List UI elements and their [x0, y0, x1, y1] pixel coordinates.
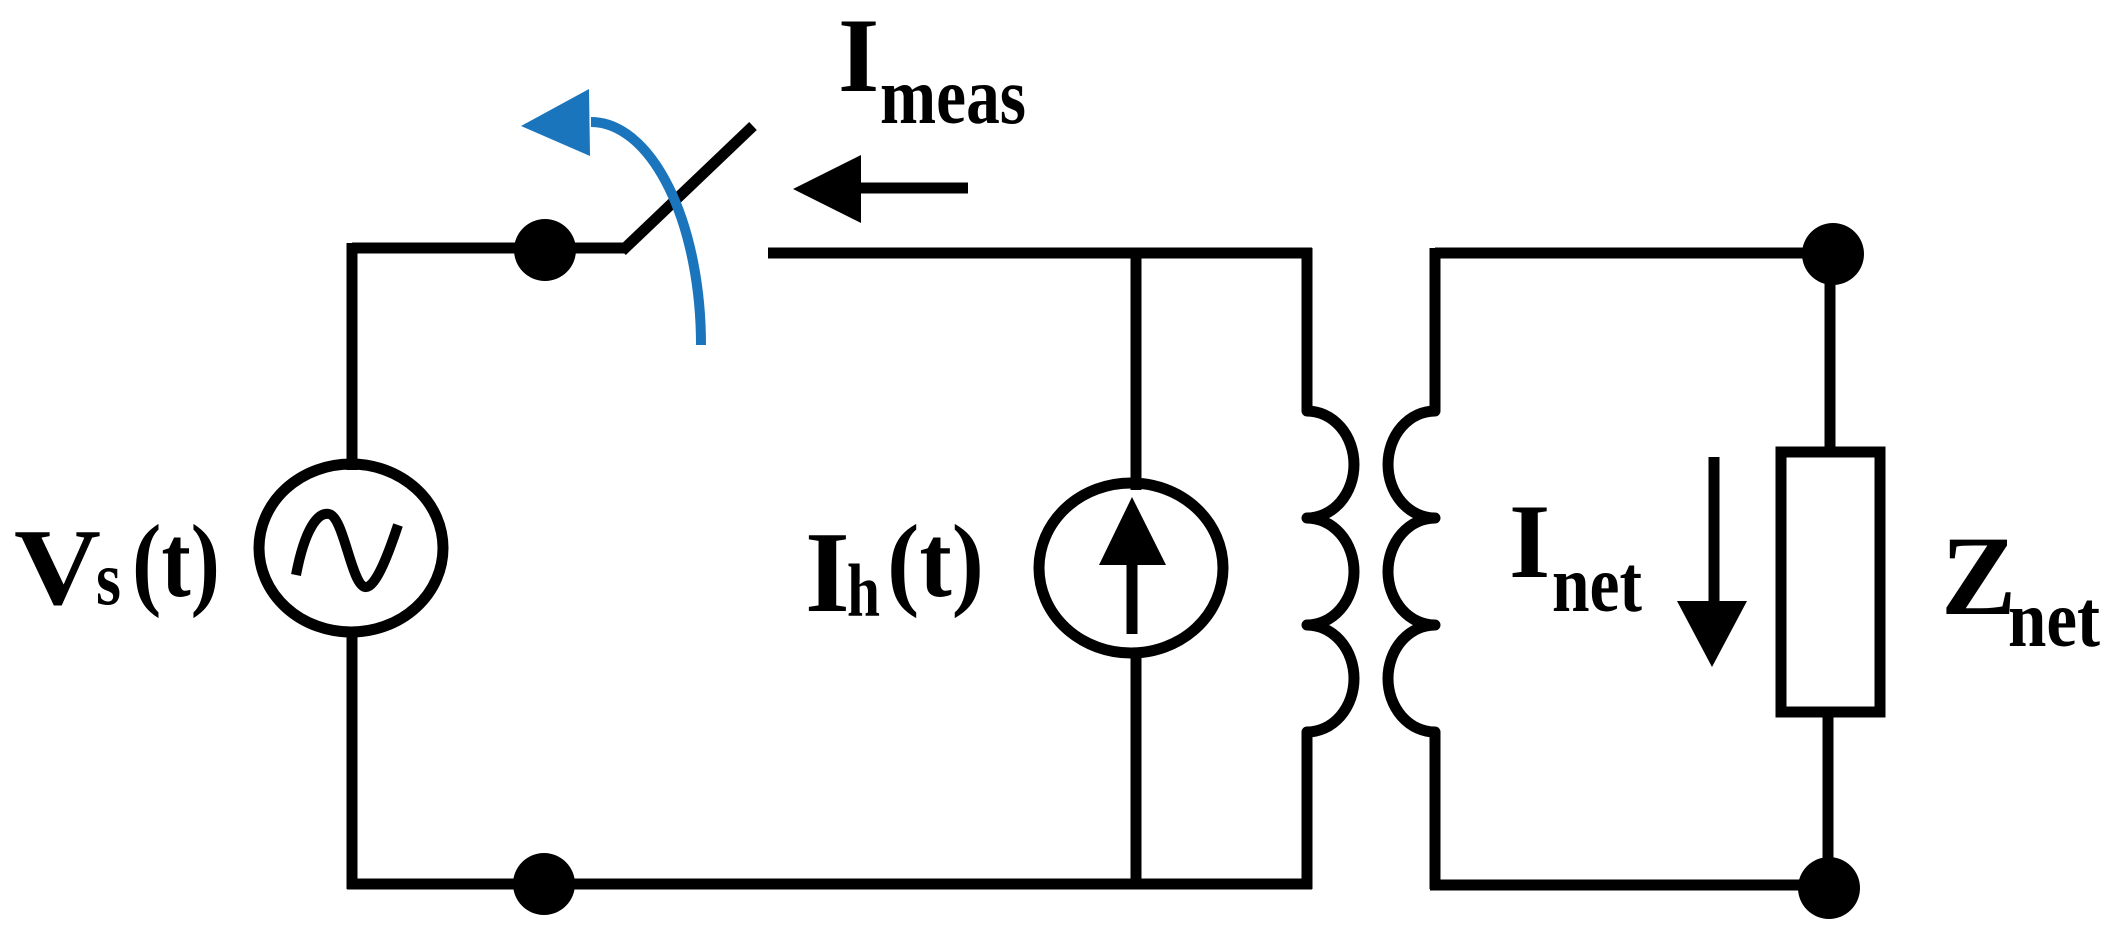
label Ih(t) — [805, 504, 984, 636]
svg-text:h: h — [847, 550, 880, 633]
wire current source bottom lead — [1131, 648, 1142, 884]
wire bottom rail (primary) — [347, 879, 1312, 890]
sine symbol inside V1 — [296, 514, 398, 587]
impedance Z_net box — [1781, 452, 1880, 712]
svg-text:net: net — [1552, 541, 1642, 629]
current source Ih — [1039, 483, 1223, 653]
node A (top-left junction) — [514, 219, 576, 281]
switch S1 arm — [622, 126, 753, 251]
wire left vertical (source top lead) — [347, 243, 358, 470]
svg-text:I: I — [1509, 483, 1550, 600]
node B (bottom-left junction) — [513, 853, 575, 915]
svg-text:net: net — [2008, 576, 2100, 664]
I_net direction arrow — [1677, 457, 1747, 667]
wire top-left rail — [352, 243, 627, 254]
node C (top-right junction) — [1802, 223, 1864, 285]
svg-text:(t): (t) — [887, 504, 984, 619]
arrow inside current source — [1099, 497, 1166, 634]
label Z_net — [1941, 514, 2100, 664]
svg-text:meas: meas — [880, 53, 1026, 141]
transformer T1 secondary winding — [1388, 248, 1435, 889]
transformer T1 primary winding — [1307, 248, 1354, 889]
wire Z_net bottom lead — [1823, 710, 1834, 888]
wire secondary top rail — [1435, 248, 1833, 259]
wire left vertical (source bottom lead) — [347, 630, 358, 889]
switch actuation blue arrow — [521, 89, 701, 345]
svg-text:V: V — [14, 507, 101, 628]
label Vs(t) — [14, 504, 220, 628]
I_meas direction arrow — [793, 155, 968, 223]
svg-text:(t): (t) — [132, 504, 220, 619]
voltage source V1 (AC) — [259, 464, 443, 632]
svg-text:Z: Z — [1941, 514, 2016, 639]
wire secondary bottom rail — [1430, 880, 1829, 891]
node D (bottom-right junction) — [1798, 857, 1860, 919]
svg-text:s: s — [96, 535, 121, 621]
wire Z_net top lead — [1825, 254, 1836, 455]
svg-text:I: I — [805, 509, 850, 636]
wire middle top rail — [768, 248, 1312, 259]
svg-text:I: I — [838, 0, 879, 114]
wire current source top lead — [1131, 253, 1142, 490]
label I_net — [1509, 483, 1642, 629]
label I_meas — [838, 0, 1026, 141]
